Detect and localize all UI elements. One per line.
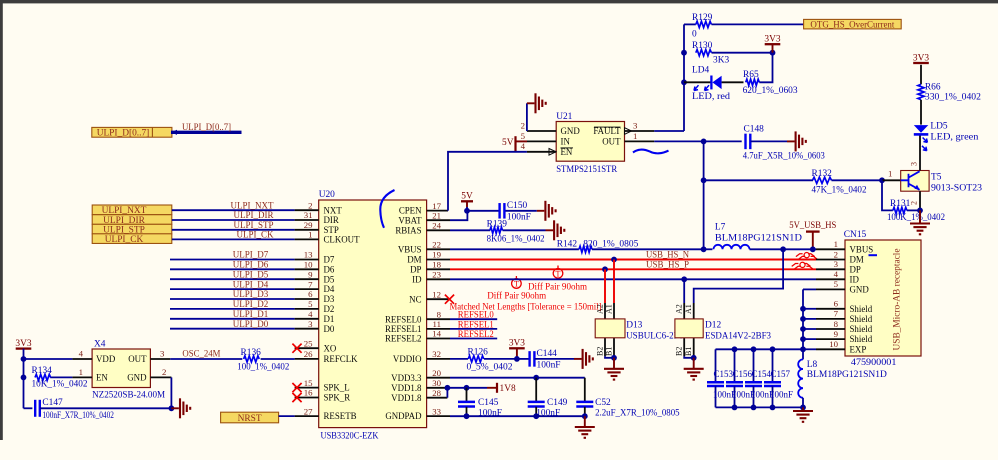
svg-text:GND: GND — [561, 126, 581, 136]
svg-text:27: 27 — [304, 406, 313, 416]
svg-text:C149: C149 — [547, 398, 568, 408]
IC U21 STMPS2151STR body — [556, 122, 624, 162]
svg-text:A1: A1 — [684, 304, 693, 314]
capacitor C147 — [24, 407, 33, 409]
svg-text:100nF: 100nF — [537, 361, 561, 371]
svg-text:0: 0 — [692, 30, 697, 40]
svg-text:A2: A2 — [596, 304, 605, 314]
no-connect X on pin 16 SPK_R — [292, 393, 301, 402]
wire U21 GND to ground — [526, 103, 528, 131]
svg-text:Shield: Shield — [850, 304, 873, 314]
svg-text:20: 20 — [432, 368, 441, 378]
svg-text:5V: 5V — [461, 192, 473, 202]
junction D12 ground — [691, 355, 697, 361]
resistor R129 — [684, 23, 696, 25]
svg-text:100nF: 100nF — [507, 212, 531, 222]
U21 FAULT output triangle — [625, 128, 632, 135]
junction R130/3V3/R65 — [770, 50, 776, 56]
wire ULPI_D5 — [170, 278, 295, 280]
wire shield vertical — [802, 289, 804, 349]
svg-text:4.7uF_X5R_10%_0603: 4.7uF_X5R_10%_0603 — [743, 152, 825, 162]
svg-text:SPK_L: SPK_L — [324, 383, 350, 393]
wire ULPI_D6 — [170, 268, 295, 270]
wire shield pin 7 — [803, 318, 816, 320]
svg-text:2: 2 — [162, 367, 166, 377]
power port 1V8 — [487, 387, 497, 389]
svg-text:7: 7 — [308, 279, 313, 289]
svg-text:3: 3 — [633, 120, 638, 130]
svg-text:ULPI_CK: ULPI_CK — [236, 230, 274, 240]
svg-text:C157: C157 — [771, 369, 791, 379]
resistor R131 — [882, 180, 893, 210]
ground at C150 — [537, 210, 545, 212]
svg-text:ULPI_D[0..7]: ULPI_D[0..7] — [97, 129, 150, 139]
sheet border frame — [0, 0, 998, 3]
svg-text:ULPI_D6: ULPI_D6 — [233, 260, 269, 270]
LD4 emission arrows — [694, 85, 699, 90]
wire X4 VDD — [24, 358, 73, 360]
U20 right pin stubs — [427, 210, 448, 212]
U20 blue arc annotation near CPEN — [380, 190, 394, 228]
svg-text:8K06_1%_0402: 8K06_1%_0402 — [487, 235, 545, 245]
svg-text:XO: XO — [324, 343, 337, 353]
svg-text:D1: D1 — [324, 314, 335, 324]
svg-text:R126: R126 — [468, 348, 489, 358]
svg-text:14: 14 — [432, 329, 441, 339]
svg-text:REFSEL0: REFSEL0 — [458, 311, 494, 321]
svg-text:4: 4 — [521, 141, 526, 151]
svg-text:8: 8 — [834, 319, 839, 329]
svg-text:11: 11 — [433, 319, 441, 329]
svg-text:5V_USB_HS: 5V_USB_HS — [789, 221, 836, 231]
svg-text:17: 17 — [432, 201, 441, 211]
svg-text:620_1%_0603: 620_1%_0603 — [743, 86, 798, 96]
wire 1V8 net — [447, 387, 487, 389]
svg-text:CPEN: CPEN — [399, 206, 422, 216]
port NRST — [221, 412, 279, 423]
svg-text:1: 1 — [834, 239, 838, 249]
svg-text:D2: D2 — [324, 304, 335, 314]
wire 3V3 rail left — [23, 349, 25, 409]
svg-text:R65: R65 — [743, 70, 759, 80]
capacitor C157 — [772, 349, 774, 382]
svg-text:ULPI_STP: ULPI_STP — [233, 220, 273, 230]
svg-text:IN: IN — [561, 137, 571, 147]
svg-text:31: 31 — [304, 210, 313, 220]
svg-text:EN: EN — [561, 147, 573, 157]
svg-text:R139: R139 — [487, 219, 508, 229]
capacitor C149 — [535, 378, 537, 402]
svg-text:LED, green: LED, green — [930, 133, 978, 143]
svg-text:10: 10 — [304, 260, 313, 270]
ground below L8 — [802, 407, 804, 410]
svg-text:ULPI_D3: ULPI_D3 — [233, 289, 269, 299]
svg-text:ULPI_D[0..7]: ULPI_D[0..7] — [182, 123, 231, 133]
svg-text:12: 12 — [432, 289, 441, 299]
resistor R132 — [704, 179, 813, 181]
wire VBUS with resistor R142 — [450, 248, 579, 250]
svg-text:33: 33 — [432, 406, 441, 416]
svg-text:OTG_HS_OverCurrent: OTG_HS_OverCurrent — [810, 21, 894, 31]
junction FAULT/LD4 — [681, 79, 687, 85]
LD5 emission arrows — [923, 138, 928, 143]
svg-text:4: 4 — [834, 269, 839, 279]
capacitor C153 — [715, 349, 717, 382]
wire ULPI_D2 — [170, 308, 295, 310]
resistor R134 — [50, 376, 72, 378]
wire ULPI_D3 — [170, 298, 295, 300]
wire 5V_USB_HS vertical — [703, 141, 705, 249]
svg-text:3: 3 — [160, 349, 165, 359]
resistor R136 — [244, 356, 260, 362]
ground below D13 — [613, 358, 615, 368]
power port 3V3 above R130 — [765, 43, 781, 45]
svg-text:C148: C148 — [744, 125, 765, 135]
junction 3V3/VDD — [21, 356, 27, 362]
svg-text:A2: A2 — [675, 304, 684, 314]
svg-text:CLKOUT: CLKOUT — [324, 235, 361, 245]
svg-text:RESETB: RESETB — [324, 411, 357, 421]
svg-text:32: 32 — [432, 349, 441, 359]
svg-text:VBUS: VBUS — [850, 244, 874, 254]
svg-text:VDD: VDD — [96, 354, 116, 364]
svg-text:19: 19 — [432, 250, 441, 260]
wire U21 OUT net — [654, 140, 703, 142]
op IC U20 USB3320C-EZK body — [319, 200, 427, 428]
D12 pin stubs — [683, 303, 685, 319]
svg-text:25: 25 — [304, 338, 313, 348]
wire base node to T5 — [882, 179, 901, 181]
svg-text:29: 29 — [304, 220, 313, 230]
svg-text:9013-SOT23: 9013-SOT23 — [931, 184, 982, 194]
svg-text:ULPI_D4: ULPI_D4 — [233, 279, 269, 289]
capacitor C156 — [734, 349, 736, 382]
svg-text:DIR: DIR — [324, 215, 339, 225]
svg-text:2: 2 — [521, 120, 525, 130]
ferrite bead L7 — [704, 248, 713, 250]
svg-text:D7: D7 — [324, 255, 335, 265]
wire D13 B pins join — [605, 356, 614, 358]
svg-text:D12: D12 — [705, 321, 721, 331]
svg-text:C144: C144 — [537, 349, 558, 359]
svg-text:ULPI_D1: ULPI_D1 — [233, 309, 269, 319]
svg-text:47K_1%_0402: 47K_1%_0402 — [812, 185, 867, 195]
U20 left pin stubs — [295, 209, 319, 211]
junction 3V3/R134 — [21, 375, 27, 381]
svg-text:R131: R131 — [890, 199, 911, 209]
svg-text:9: 9 — [308, 269, 313, 279]
svg-text:C150: C150 — [507, 201, 528, 211]
svg-text:330_1%_0402: 330_1%_0402 — [925, 93, 981, 103]
svg-text:3K3: 3K3 — [713, 55, 729, 65]
svg-text:3V3: 3V3 — [15, 339, 31, 349]
svg-text:6: 6 — [834, 299, 839, 309]
svg-text:R132: R132 — [812, 169, 833, 179]
svg-text:4: 4 — [79, 349, 84, 359]
ground below D12 — [693, 358, 695, 368]
junction FAULT/R130 — [681, 50, 687, 56]
svg-text:3V3: 3V3 — [913, 53, 929, 63]
transistor T5 9013-SOT23 body — [901, 171, 929, 192]
junction 5V_USB_HS/VBUS — [810, 246, 816, 252]
power port 3V3 (left) — [16, 347, 32, 349]
svg-text:10K_1%_0402: 10K_1%_0402 — [32, 380, 88, 390]
connector CN15 USB_Micro-AB body — [845, 240, 921, 356]
svg-text:R136: R136 — [241, 348, 262, 358]
junction shield/EXP/L8 — [800, 346, 806, 352]
svg-text:3: 3 — [910, 162, 919, 166]
wire EXP pin 10 — [803, 348, 816, 350]
wire shield pin 8 — [803, 328, 816, 330]
svg-text:C52: C52 — [595, 398, 611, 408]
power port 5V above VBAT — [461, 200, 473, 202]
svg-text:2.2uF_X7R_10%_0805: 2.2uF_X7R_10%_0805 — [595, 409, 680, 419]
svg-text:VBUS: VBUS — [398, 244, 422, 254]
svg-text:L8: L8 — [807, 360, 818, 370]
svg-text:REFSEL1: REFSEL1 — [458, 320, 494, 330]
svg-text:EXP: EXP — [850, 344, 867, 354]
svg-text:REFSEL0: REFSEL0 — [385, 314, 422, 324]
svg-text:D6: D6 — [324, 264, 335, 274]
wire D12-A1 elbow to VBUS — [694, 249, 783, 303]
svg-text:R129: R129 — [692, 13, 713, 23]
svg-text:LD5: LD5 — [930, 122, 947, 132]
svg-text:ULPI_NXT: ULPI_NXT — [231, 200, 274, 210]
wire C52 feed — [584, 378, 586, 402]
svg-text:REFSEL1: REFSEL1 — [385, 324, 422, 334]
wire shield pin 9 — [803, 338, 816, 340]
wire REFSEL0 — [450, 318, 497, 320]
svg-text:8: 8 — [437, 309, 442, 319]
resistor R66 vertical — [920, 65, 922, 85]
junctions GNDPAD rail — [464, 413, 470, 419]
svg-text:T: T — [556, 270, 561, 279]
oscillator X4 body — [92, 349, 150, 388]
diff pair marker on USB_HS_P — [794, 266, 813, 269]
junction VBUS/D12-A1 — [780, 246, 786, 252]
svg-text:D4: D4 — [324, 284, 335, 294]
svg-text:NZ2520SB-24.00M: NZ2520SB-24.00M — [92, 390, 166, 400]
LED LD5 green — [914, 125, 929, 133]
wire OSC_24M — [170, 358, 242, 360]
svg-text:USB_HS_P: USB_HS_P — [646, 260, 689, 270]
wire U21 FAULT net — [654, 130, 684, 132]
resistor R126 — [450, 358, 468, 360]
svg-text:ULPI_DIR: ULPI_DIR — [234, 210, 274, 220]
junction R132 tap — [701, 177, 707, 183]
svg-text:7: 7 — [834, 309, 839, 319]
svg-text:USB3320C-EZK: USB3320C-EZK — [321, 431, 379, 441]
svg-text:DP: DP — [410, 264, 421, 274]
D13 pin stubs — [604, 303, 606, 319]
ground at R139 — [546, 229, 554, 231]
svg-text:ULPI_D5: ULPI_D5 — [233, 269, 269, 279]
svg-text:1: 1 — [79, 367, 83, 377]
svg-text:23: 23 — [432, 270, 441, 280]
svg-text:USB_HS_N: USB_HS_N — [646, 251, 689, 261]
svg-text:2: 2 — [910, 201, 919, 205]
svg-text:R66: R66 — [925, 83, 941, 93]
svg-text:ULPI_D7: ULPI_D7 — [233, 250, 269, 260]
svg-text:D5: D5 — [324, 274, 335, 284]
wire ULPI_STP — [172, 229, 295, 231]
wire VBAT elbow — [450, 211, 467, 220]
D12 A-pin wires — [683, 279, 685, 303]
capacitor C145 — [466, 388, 468, 402]
svg-text:R142: R142 — [557, 240, 578, 250]
capacitor C150 — [467, 210, 499, 212]
svg-text:VDD3.3: VDD3.3 — [391, 373, 422, 383]
svg-text:13: 13 — [304, 250, 313, 260]
blue squiggle annotation under OUT wire — [633, 150, 669, 154]
svg-text:GND: GND — [127, 373, 147, 383]
D13 A-pin red wires — [604, 269, 606, 303]
port OTG_HS_OverCurrent — [804, 19, 902, 29]
wire ULPI_D1 — [170, 318, 295, 320]
svg-text:21: 21 — [432, 210, 441, 220]
svg-text:15: 15 — [304, 378, 313, 388]
svg-text:RBIAS: RBIAS — [395, 225, 421, 235]
red annotation circle T on ID — [512, 279, 522, 289]
svg-text:1: 1 — [633, 131, 637, 141]
resistor R139 — [450, 229, 490, 231]
svg-text:ESDA14V2-2BF3: ESDA14V2-2BF3 — [705, 332, 771, 342]
no-connect X on pin 12 NC — [445, 295, 454, 304]
svg-text:5: 5 — [521, 131, 526, 141]
svg-text:NXT: NXT — [324, 205, 343, 215]
bus wire ULPI_D[0..7] — [171, 131, 242, 134]
wire ULPI_D4 — [170, 288, 295, 290]
wire cap top rail — [716, 348, 804, 350]
junction L7/VBUS — [701, 246, 707, 252]
ground X4 — [171, 407, 179, 409]
svg-text:EN: EN — [96, 373, 108, 383]
port ULPI_CK — [92, 234, 172, 244]
svg-text:24: 24 — [432, 221, 441, 231]
svg-text:NRST: NRST — [238, 414, 262, 424]
svg-text:1: 1 — [308, 230, 312, 240]
junction X4 GND / C147 — [169, 405, 175, 411]
junction pin30/28 — [445, 385, 451, 391]
svg-text:NC: NC — [409, 294, 421, 304]
wire shield pin 6 — [803, 308, 816, 310]
wire ID net — [450, 278, 816, 280]
junction T5 base node — [879, 177, 885, 183]
svg-text:16: 16 — [304, 388, 313, 398]
svg-text:5: 5 — [308, 299, 313, 309]
svg-text:C156: C156 — [733, 369, 753, 379]
junction 1V8/C145 — [464, 385, 470, 391]
svg-text:LED, red: LED, red — [692, 92, 730, 102]
ground below C52 — [584, 416, 586, 426]
U21 EN input triangle — [549, 149, 556, 156]
svg-text:DM: DM — [407, 255, 421, 265]
T5 NPN symbol — [901, 171, 920, 190]
wire CN15 GND pin5 — [803, 288, 816, 290]
svg-text:ULPI_D0: ULPI_D0 — [233, 319, 269, 329]
svg-text:LD4: LD4 — [692, 65, 709, 75]
svg-text:T5: T5 — [931, 173, 942, 183]
port ULPI_NXT — [92, 205, 172, 215]
svg-text:GNDPAD: GNDPAD — [385, 411, 422, 421]
svg-text:26: 26 — [304, 349, 313, 359]
junction emitter/R131 — [917, 208, 923, 214]
svg-text:VDD1.8: VDD1.8 — [391, 383, 422, 393]
svg-text:100nF: 100nF — [770, 389, 793, 399]
wire ULPI_D0 — [170, 328, 295, 330]
wire D12 B pins join — [684, 356, 694, 358]
port ULPI_DIR — [92, 215, 172, 225]
svg-text:100nF_X7R_10%_0402: 100nF_X7R_10%_0402 — [42, 411, 114, 421]
svg-text:Diff Pair 90ohm: Diff Pair 90ohm — [487, 290, 547, 301]
ground at C144 — [574, 358, 582, 360]
svg-text:1V8: 1V8 — [500, 384, 516, 394]
U21 pin stubs — [527, 130, 556, 132]
wire NRST — [279, 415, 295, 417]
wire ULPI_DIR — [172, 219, 295, 221]
svg-text:STP: STP — [324, 225, 339, 235]
wire CPEN to U21 EN — [448, 152, 527, 211]
capacitor C154 — [753, 349, 755, 382]
wire REFSEL2 — [450, 338, 497, 340]
capacitor C148 — [704, 140, 742, 142]
svg-text:5: 5 — [834, 279, 839, 289]
power port 3V3 above R66 — [913, 62, 929, 64]
junction VDD3.3/C149 — [533, 375, 539, 381]
svg-text:2: 2 — [308, 200, 312, 210]
svg-text:X4: X4 — [94, 339, 106, 349]
svg-text:REFSEL2: REFSEL2 — [385, 334, 422, 344]
CN15 blue dash near VBUS — [869, 254, 878, 256]
svg-text:FAULT: FAULT — [593, 126, 621, 136]
svg-text:ID: ID — [850, 274, 860, 284]
junction ID/D12-A2 — [681, 276, 687, 282]
svg-text:D3: D3 — [324, 294, 335, 304]
resistor R65 — [746, 79, 760, 85]
svg-text:6: 6 — [308, 289, 313, 299]
svg-text:DP: DP — [850, 264, 861, 274]
wire ULPI_D7 — [170, 259, 295, 261]
wire X4 GND down — [170, 377, 172, 408]
red annotation circle T on DP — [553, 269, 563, 279]
svg-text:18: 18 — [432, 260, 441, 270]
svg-text:A1: A1 — [605, 304, 614, 314]
svg-text:Shield: Shield — [850, 334, 873, 344]
ground below T5 — [919, 210, 921, 223]
svg-text:U20: U20 — [319, 190, 335, 200]
wire T5 collector — [919, 134, 921, 170]
ground at U21 GND — [527, 102, 535, 104]
svg-text:3: 3 — [834, 259, 839, 269]
svg-text:D13: D13 — [626, 321, 642, 331]
svg-text:R134: R134 — [32, 366, 53, 376]
diff pair marker on USB_HS_N — [799, 256, 818, 259]
svg-text:T: T — [514, 280, 519, 289]
X4 pin stubs — [72, 358, 92, 360]
svg-text:0_5%_0402: 0_5%_0402 — [467, 362, 513, 372]
capacitor C52 — [576, 401, 593, 404]
svg-text:2: 2 — [834, 249, 838, 259]
resistor R130 — [696, 50, 712, 56]
svg-text:CN15: CN15 — [844, 230, 867, 240]
LED LD4 red — [684, 81, 711, 83]
svg-text:3: 3 — [308, 319, 313, 329]
svg-text:C153: C153 — [714, 369, 734, 379]
svg-text:Shield: Shield — [850, 314, 873, 324]
junction 5V/VBAT/C150 — [464, 208, 470, 214]
wire T5 emitter to ground — [919, 191, 921, 210]
junction USB_HS_P / D13-A2 — [602, 266, 608, 272]
